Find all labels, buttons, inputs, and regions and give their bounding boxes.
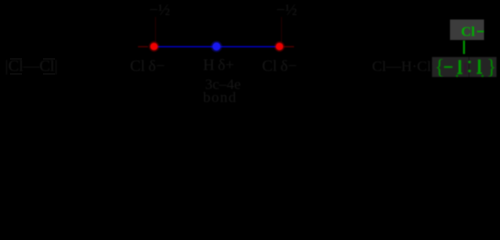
svg-text:}: } [487,55,497,79]
svg-text:Cl: Cl [461,25,475,40]
svg-text:{: { [435,55,445,79]
svg-text:I: I [463,59,469,78]
